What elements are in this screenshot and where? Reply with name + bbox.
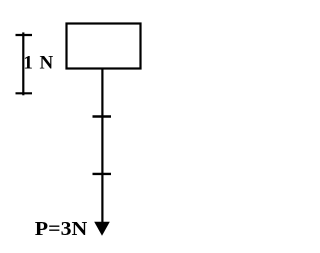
svg-text:N: N [40, 52, 54, 73]
svg-text:1: 1 [23, 52, 33, 73]
svg-text:P=3N: P=3N [35, 218, 88, 240]
